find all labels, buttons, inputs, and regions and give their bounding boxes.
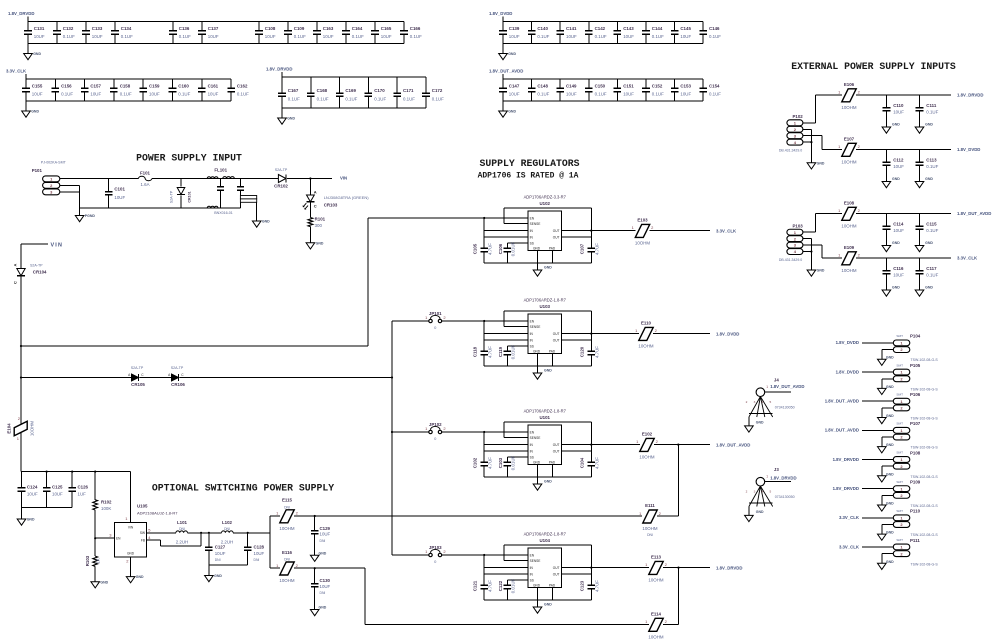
svg-text:OUT: OUT [553,573,560,577]
svg-text:C157: C157 [90,83,101,88]
wire [28,21,404,23]
ground [278,108,296,124]
svg-text:C147: C147 [509,83,520,88]
capacitor C156 [52,79,74,101]
net 1.8V_DRVDD [716,565,742,570]
net 1.8V_DUT_AVDD [489,69,523,79]
net 1.8V_DRVDD [833,457,859,462]
svg-text:P103: P103 [793,224,804,229]
svg-text:GND: GND [508,52,516,56]
svg-text:10OHM: 10OHM [642,526,657,531]
svg-text:C104: C104 [580,457,585,468]
svg-text:E114: E114 [651,611,662,616]
svg-text:P104: P104 [910,334,921,339]
svg-text:C148: C148 [537,83,548,88]
svg-text:10UF: 10UF [90,92,101,97]
net 1.8V_DUT_AVDD [825,428,859,433]
svg-text:FB: FB [141,538,145,542]
svg-text:0.1UF: 0.1UF [652,92,664,97]
svg-text:1.8V_DRVDD: 1.8V_DRVDD [833,457,859,462]
svg-text:C139: C139 [509,26,520,31]
wire rail B [20,376,132,378]
svg-text:ADP1706 IS RATED @ 1A: ADP1706 IS RATED @ 1A [478,172,579,181]
capacitor C114 [882,214,904,252]
capacitor C165 [371,22,392,44]
net 1.8V_DVDD [836,340,859,345]
svg-text:SS: SS [530,579,534,583]
svg-text:3: 3 [754,400,756,404]
svg-text:JP103: JP103 [429,545,442,550]
capacitor C124 [18,472,38,508]
svg-text:GND: GND [886,443,894,447]
wire pin1 [803,95,842,123]
svg-text:1.8V_DVDD: 1.8V_DVDD [836,369,859,374]
connector P104 [893,334,938,363]
capacitor C150 [585,79,607,101]
capacitor C139 [499,22,520,44]
svg-text:1.8V_DRVDD: 1.8V_DRVDD [716,565,742,570]
svg-text:PAD: PAD [549,349,556,353]
capacitor C115 [915,214,938,252]
wire pin3 [803,136,842,150]
svg-text:GND: GND [508,110,516,114]
wire pin2 gnd [882,408,894,418]
wire gnd rail [484,465,591,478]
svg-text:1.8V_DVDD: 1.8V_DVDD [489,11,512,16]
svg-text:0.1UF: 0.1UF [120,92,132,97]
connector P106 [893,392,938,421]
svg-text:1.8V_DRVDD: 1.8V_DRVDD [8,11,34,16]
ground [878,501,895,511]
ground [533,366,552,379]
svg-text:GND: GND [287,117,295,121]
wire [22,471,131,473]
svg-text:TSW-102-08-G-S: TSW-102-08-G-S [911,533,939,537]
svg-text:C126: C126 [78,484,89,489]
inductor L101 [176,520,188,545]
ground [533,477,552,490]
svg-text:0.1UF: 0.1UF [63,34,75,39]
title OPTIONAL SWITCHING POWER SUPPLY [152,483,334,494]
svg-text:U105: U105 [137,503,148,508]
title EXTERNAL POWER SUPPLY INPUTS [791,61,956,72]
capacitor C144 [642,22,664,44]
wire EN/IN junction [483,320,528,347]
svg-text:GND: GND [886,385,894,389]
svg-text:E103: E103 [637,217,648,222]
svg-text:PAD: PAD [549,583,556,587]
capacitor C172 [422,77,444,108]
capacitor C134 [111,22,133,44]
svg-text:10OHM: 10OHM [639,454,654,459]
svg-text:10OHM: 10OHM [279,578,294,583]
svg-text:0.1UF: 0.1UF [61,92,73,97]
svg-text:10UF: 10UF [32,92,43,97]
wire [503,78,703,80]
svg-text:10UF: 10UF [323,34,334,39]
svg-text:2: 2 [746,490,748,494]
ferrite bead E108 [838,200,951,228]
diode CR105 [128,366,145,387]
svg-text:C121: C121 [472,580,477,591]
svg-text:SMT: SMT [896,334,903,338]
svg-text:DNI: DNI [320,539,326,543]
svg-text:E108: E108 [844,200,855,205]
svg-text:F101: F101 [140,170,151,175]
svg-text:GND: GND [533,349,541,353]
svg-text:3.3V_CLK: 3.3V_CLK [839,544,860,549]
connector J3 [746,467,795,506]
wire [180,376,394,378]
svg-text:P107: P107 [910,421,921,426]
wire SS [507,456,528,458]
svg-text:PGND: PGND [85,214,96,218]
svg-text:0.01UF: 0.01UF [511,455,516,470]
wire [367,218,369,346]
ferrite bead E114 [645,611,678,639]
ground [306,227,324,249]
resistor R103 [85,537,101,582]
svg-text:C171: C171 [403,88,414,93]
ferrite bead E103 [650,230,711,232]
svg-text:1.8V_DRVDD: 1.8V_DRVDD [957,92,983,97]
svg-text:1: 1 [766,475,768,479]
svg-text:CR106: CR106 [171,382,185,387]
svg-text:EN: EN [530,430,535,434]
svg-text:S2A-TP: S2A-TP [131,366,144,370]
svg-text:SMT: SMT [896,509,903,513]
svg-text:C151: C151 [623,83,634,88]
svg-text:SMT: SMT [896,363,903,367]
svg-text:SMT: SMT [896,392,903,396]
capacitor C145 [671,22,692,44]
svg-text:C115: C115 [926,222,937,227]
connector P105 [893,363,938,392]
wire gnd rail [484,588,591,601]
ground [878,531,895,541]
ferrite bead E115 [270,515,642,517]
svg-text:C165: C165 [381,26,392,31]
svg-text:OPTIONAL SWITCHING POWER SUPPL: OPTIONAL SWITCHING POWER SUPPLY [152,483,334,494]
capacitor C122 [498,578,515,600]
capacitor C123 [580,580,600,600]
svg-text:C130: C130 [320,578,331,583]
svg-text:OUT: OUT [553,450,560,454]
svg-text:10UF: 10UF [265,34,276,39]
ground [310,606,326,616]
svg-text:C116: C116 [893,266,904,271]
svg-text:C141: C141 [566,26,577,31]
resistor R102 [93,472,112,539]
svg-text:0.1UF: 0.1UF [652,34,664,39]
capacitor C121 [472,580,492,600]
svg-text:1: 1 [766,385,768,389]
svg-text:10UF: 10UF [320,532,331,537]
wire SW [147,532,176,534]
capacitor C111 [915,95,938,133]
capacitor C106 [498,241,515,263]
svg-text:C133: C133 [92,26,103,31]
svg-text:GND: GND [136,575,144,579]
wire gnd rail [209,564,248,566]
svg-text:10UF: 10UF [509,34,520,39]
wire [765,481,791,483]
connector P110 [893,509,938,538]
svg-text:0.1UF: 0.1UF [709,92,721,97]
svg-text:P109: P109 [910,479,921,484]
wire VIN [287,176,347,181]
svg-text:TSW-102-08-G-S: TSW-102-08-G-S [911,417,939,421]
svg-text:C150: C150 [595,83,606,88]
capacitor C154 [699,79,721,101]
svg-text:SS: SS [530,456,534,460]
svg-text:GND: GND [533,583,541,587]
capacitor C128 [244,533,265,565]
svg-text:P105: P105 [910,363,921,368]
svg-text:0.1UF: 0.1UF [595,92,607,97]
filter FL101 [207,168,256,216]
svg-text:0.1UF: 0.1UF [374,96,386,101]
ground [807,269,825,277]
svg-text:C101: C101 [114,187,125,192]
svg-text:10OHM: 10OHM [30,421,35,436]
svg-text:C125: C125 [52,484,63,489]
svg-text:10UF: 10UF [208,92,219,97]
svg-text:GND: GND [925,241,933,245]
net 3.3V_CLK [716,228,737,233]
svg-text:0.1UF: 0.1UF [537,92,549,97]
svg-text:0.1UF: 0.1UF [926,228,938,233]
net 1.8V_DRVDD [266,67,292,77]
svg-text:L102: L102 [222,520,233,525]
capacitor C143 [614,22,635,44]
wire jumper feed vertical [391,321,393,555]
svg-text:4.7UF: 4.7UF [595,346,600,358]
title SUPPLY REGULATORS [478,158,580,181]
svg-text:E107: E107 [844,136,855,141]
svg-text:GND: GND [892,123,900,127]
svg-text:OUT: OUT [553,443,560,447]
svg-text:300: 300 [315,223,323,228]
wire junction to switcher feed [677,444,679,517]
svg-text:PAD: PAD [549,246,556,250]
svg-text:C118: C118 [472,346,477,357]
wire [503,21,703,23]
svg-text:3.3V_CLK: 3.3V_CLK [839,515,860,520]
svg-text:C163: C163 [323,26,334,31]
svg-text:P106: P106 [910,392,921,397]
svg-text:0.1UF: 0.1UF [345,96,357,101]
svg-text:SW: SW [140,531,145,535]
capacitor C163 [313,22,334,44]
svg-text:GND: GND [319,606,327,610]
svg-text:GND: GND [544,266,552,270]
net 1.8V_DUT_AVDD [825,399,859,404]
capacitor C166 [400,22,422,44]
power ground PGND [75,208,95,222]
svg-text:EXTERNAL POWER SUPPLY INPUTS: EXTERNAL POWER SUPPLY INPUTS [791,61,956,72]
wire [60,178,139,180]
svg-text:C109: C109 [294,26,305,31]
svg-text:GND: GND [127,551,135,555]
svg-text:C169: C169 [345,88,356,93]
svg-text:4.7UF: 4.7UF [595,580,600,592]
svg-text:C164: C164 [352,26,363,31]
wire pin2 gnd [882,437,894,447]
wire [765,391,791,393]
wire [862,342,893,344]
net 1.8V_DRVDD [8,11,34,21]
svg-text:0.1UF: 0.1UF [926,164,938,169]
svg-text:0.1UF: 0.1UF [926,110,938,115]
svg-text:10OHM: 10OHM [638,343,653,348]
svg-text:C162: C162 [237,83,248,88]
svg-text:C167: C167 [288,88,299,93]
ground [91,580,109,588]
net 1.8V_DVDD [716,331,739,336]
svg-text:4.7UF: 4.7UF [595,457,600,469]
wire gnd rail [484,251,591,264]
svg-text:C127: C127 [215,545,226,550]
capacitor C104 [580,457,600,477]
svg-text:1.8V_DUT_AVDD: 1.8V_DUT_AVDD [825,399,859,404]
diode CR102 [274,168,288,189]
svg-text:C114: C114 [893,222,904,227]
svg-text:C113: C113 [926,158,937,163]
svg-text:10UF: 10UF [680,92,691,97]
svg-text:1.8V_DRVDD: 1.8V_DRVDD [833,486,859,491]
capacitor C113 [915,150,938,188]
capacitor C151 [614,79,635,101]
svg-text:1K: 1K [96,558,101,563]
svg-text:SMT: SMT [896,538,903,542]
svg-text:0.1UF: 0.1UF [317,96,329,101]
capacitor C168 [307,77,329,108]
capacitor C141 [556,22,577,44]
svg-text:P108: P108 [910,450,921,455]
svg-text:C131: C131 [34,26,45,31]
svg-text:C146: C146 [709,26,720,31]
regulator U102 ADP1706ARDZ-3.3-R7 [524,194,567,250]
svg-text:EN: EN [530,216,535,220]
wire OUT [562,568,650,575]
svg-text:2.2UH: 2.2UH [176,539,188,544]
svg-text:10UF: 10UF [149,92,160,97]
svg-text:DB.431.3429.0: DB.431.3429.0 [779,148,802,152]
ferrite bead E110 [653,333,710,335]
svg-text:L101: L101 [177,520,188,525]
svg-text:GND: GND [756,510,764,514]
svg-text:GND: GND [886,356,894,360]
svg-text:10UF: 10UF [893,164,904,169]
wire pin2 gnd [882,466,894,476]
svg-text:C117: C117 [926,266,937,271]
ferrite bead E113 [663,567,710,569]
svg-text:DNI: DNI [224,527,230,531]
capacitor C125 [43,472,63,508]
svg-text:3.3V_CLK: 3.3V_CLK [6,69,27,74]
svg-text:PJ-002KA-SMT: PJ-002KA-SMT [41,160,67,164]
capacitor C162 [227,79,249,101]
capacitor C146 [699,22,721,44]
svg-text:SENSE: SENSE [530,222,541,226]
svg-text:10UF: 10UF [623,34,634,39]
svg-text:GND: GND [886,560,894,564]
svg-text:C108: C108 [265,26,276,31]
ground [205,565,223,582]
capacitor C170 [365,77,387,108]
svg-text:10OHM: 10OHM [635,240,650,245]
wire OUT [562,334,640,341]
wire [60,185,80,208]
ground [533,263,552,276]
svg-text:P110: P110 [910,509,921,514]
svg-text:EN: EN [116,537,121,541]
svg-text:E106: E106 [844,82,855,87]
svg-text:C122: C122 [498,580,503,591]
svg-text:4.7UF: 4.7UF [487,457,492,469]
svg-text:0.1UF: 0.1UF [403,96,415,101]
resistor R101 [308,217,326,228]
svg-text:SS: SS [530,345,534,349]
svg-text:1.8V_DVDD: 1.8V_DVDD [716,331,739,336]
svg-text:C143: C143 [623,26,634,31]
svg-text:10UF: 10UF [680,34,691,39]
svg-text:FL101: FL101 [214,168,227,173]
svg-text:2.2UH: 2.2UH [221,539,233,544]
svg-text:0.1UF: 0.1UF [709,34,721,39]
ground [878,560,895,570]
svg-text:10OHM: 10OHM [841,223,856,228]
net 1.8V_DRVDD [770,475,796,480]
svg-text:DNI: DNI [179,527,185,531]
wire pin2 gnd [882,350,894,360]
capacitor C133 [82,22,103,44]
regulator U105 ADP2108AUJZ-1.8-R7 [109,503,178,563]
net 1.8V_DRVDD [833,486,859,491]
svg-text:GND: GND [886,531,894,535]
svg-text:GND: GND [817,161,825,165]
svg-text:C111: C111 [926,103,937,108]
svg-text:E109: E109 [844,245,855,250]
capacitor C148 [528,79,550,101]
svg-text:C134: C134 [121,26,132,31]
svg-text:10UF: 10UF [893,228,904,233]
svg-text:C105: C105 [472,243,477,254]
svg-text:PAD: PAD [549,460,556,464]
svg-text:10UF: 10UF [381,34,392,39]
ferrite bead E109 [838,245,951,273]
ground [499,101,517,117]
svg-text:1.8V_DUT_AVDD: 1.8V_DUT_AVDD [716,442,750,447]
capacitor C158 [110,79,132,101]
svg-text:0.1UF: 0.1UF [432,96,444,101]
ground [878,414,895,424]
svg-text:S2A-TP: S2A-TP [170,190,174,203]
svg-text:ADP1706ARDZ-1.8-R7: ADP1706ARDZ-1.8-R7 [524,531,567,536]
ground [878,472,895,482]
ferrite bead E116 [270,567,365,569]
capacitor C117 [915,258,938,296]
ground [878,385,895,395]
svg-text:SMT: SMT [896,480,903,484]
svg-text:GND: GND [544,603,552,607]
svg-text:C170: C170 [374,88,385,93]
jumper JP102 [392,422,528,441]
capacitor C101 [105,179,126,209]
svg-text:GND: GND [544,369,552,373]
svg-text:E102: E102 [642,431,653,436]
